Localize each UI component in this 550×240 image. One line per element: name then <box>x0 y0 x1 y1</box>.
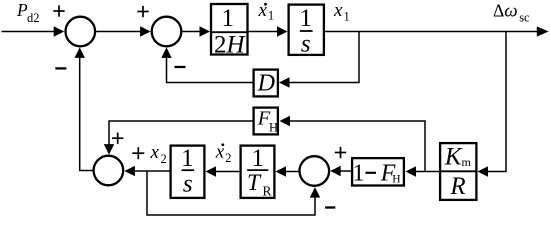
label + x2 at S3 input <box>132 142 166 166</box>
svg-text:1: 1 <box>252 145 265 172</box>
label delta omega sc <box>493 1 530 25</box>
svg-text:x: x <box>333 0 343 21</box>
block Km/R <box>440 143 476 200</box>
wire: x2 feedback down and right into S4 minus input <box>147 171 320 215</box>
svg-text:d2: d2 <box>27 11 40 25</box>
block D <box>254 70 278 97</box>
wire: S1 to summing junction S2 <box>96 26 151 36</box>
wire: Km/R output into block 1-FH <box>406 166 440 176</box>
label x1dot <box>258 0 275 23</box>
minus sign at S2 lower input <box>175 66 186 68</box>
wire: 1/TR output into integrator 1/s (lower) <box>206 166 240 176</box>
svg-text:sc: sc <box>519 11 530 25</box>
svg-text:2: 2 <box>225 151 231 165</box>
svg-text:K: K <box>444 143 463 170</box>
block 1/s lower integrator <box>171 145 205 198</box>
wire: x1 tap down and left into block D <box>279 32 359 88</box>
svg-text:1: 1 <box>344 10 350 24</box>
svg-text:s: s <box>301 31 311 58</box>
block 1-FH <box>352 158 404 186</box>
block 1/2H <box>211 4 248 59</box>
svg-text:H: H <box>392 174 400 186</box>
wire: D output left then up into S2 minus input <box>161 47 252 82</box>
svg-text:1: 1 <box>300 5 313 32</box>
summing junction S2 <box>152 17 182 47</box>
wire: branch up from Km/R output into block FH <box>280 116 426 172</box>
summing junction S1 <box>66 17 96 47</box>
wire: S3 output left then up into S1 minus input <box>75 47 93 170</box>
wire: Pd2 input into summing junction S1 <box>2 26 65 36</box>
wire: 1/2H to integrator 1/s <box>249 26 288 36</box>
svg-text:1: 1 <box>181 145 194 172</box>
wire: FH output left then down into S3 plus input <box>104 121 253 155</box>
wire: S2 to block 1/2H <box>182 26 210 36</box>
block 1/TR <box>241 145 275 199</box>
wire: delta-omega tap down into Km/R <box>478 32 507 177</box>
svg-text:R: R <box>263 184 272 199</box>
node x1 label <box>333 0 350 24</box>
svg-text:s: s <box>183 171 193 198</box>
plus sign at S1 upper input <box>53 5 64 16</box>
svg-text:x: x <box>150 142 160 163</box>
svg-text:1: 1 <box>268 9 274 23</box>
minus sign at S1 lower input <box>55 67 66 69</box>
plus sign at S2 upper input <box>137 6 148 17</box>
svg-text:2H: 2H <box>214 32 247 59</box>
svg-text:Δω: Δω <box>493 1 518 22</box>
wire: S4 output into block 1/TR <box>276 166 299 176</box>
svg-text:2: 2 <box>161 152 167 166</box>
svg-text:T: T <box>247 170 262 196</box>
svg-text:1: 1 <box>353 161 365 187</box>
label Pd2 <box>16 0 40 25</box>
wire: 1-FH output into summing junction S4 <box>330 166 351 176</box>
block 1/s integrator <box>289 5 324 58</box>
plus sign at S4 right input <box>335 147 346 158</box>
summing junction S4 <box>300 156 330 186</box>
minus sign at S4 lower input <box>325 206 335 208</box>
block FH <box>254 108 278 135</box>
label x2dot <box>215 142 232 165</box>
svg-text:R: R <box>449 173 465 200</box>
summing junction S3 <box>94 156 124 186</box>
plus sign at S3 top input <box>112 133 123 144</box>
svg-text:m: m <box>462 155 472 169</box>
wire: x1 to output delta-omega <box>325 26 549 36</box>
svg-text:D: D <box>257 71 275 97</box>
svg-text:H: H <box>269 121 278 135</box>
wire: x2 into summing junction S3 <box>124 166 169 176</box>
svg-text:1: 1 <box>221 5 234 32</box>
